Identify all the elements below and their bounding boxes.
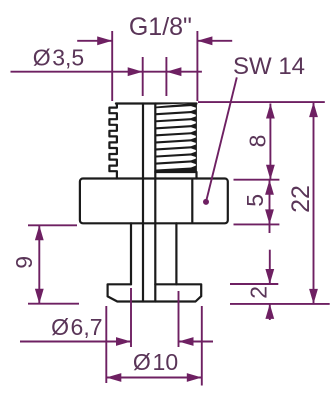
thread teeth (right side) <box>155 104 197 173</box>
dim9 bottom arrow <box>35 289 44 304</box>
dim2 top arrow <box>265 269 274 284</box>
flange top ext line right <box>230 283 278 285</box>
svg-text:2: 2 <box>245 286 271 299</box>
stem right line <box>175 223 177 284</box>
dim5 bottom arrow <box>265 209 274 224</box>
svg-text:G1/8": G1/8" <box>129 13 192 41</box>
dia 3.5 ext line left <box>142 57 144 96</box>
hole right / thread root line <box>154 104 156 302</box>
hex corner line <box>191 180 193 222</box>
dia10 left arrow <box>106 373 121 382</box>
G1/8 dim line right tail <box>197 40 232 42</box>
dia 6.7 dim line right tail <box>179 341 214 343</box>
dia 3.5 dim line <box>11 71 202 73</box>
dim5 top arrow <box>265 180 274 195</box>
dim22 bottom arrow <box>309 289 318 304</box>
dia 10 ext line right <box>201 306 203 386</box>
dim 2 lower line <box>269 304 271 320</box>
svg-text:Ø6,7: Ø6,7 <box>51 314 102 340</box>
hex body <box>80 179 228 224</box>
dia 10 dim line <box>106 377 202 379</box>
dia3.5 right arrow <box>166 67 181 76</box>
dim9 top arrow <box>35 225 44 240</box>
hex bottom ext line right <box>234 223 280 225</box>
G1/8 ext line right <box>196 31 198 101</box>
svg-text:8: 8 <box>245 135 271 148</box>
svg-text:22: 22 <box>287 185 315 213</box>
SW14 leader line <box>206 77 237 201</box>
svg-text:5: 5 <box>242 194 268 207</box>
G1/8 left arrow <box>97 36 112 45</box>
G1/8 ext line left <box>111 31 113 101</box>
arrowheads (purple solid) <box>35 36 318 382</box>
dim8 top arrow <box>266 104 275 119</box>
flange outline <box>108 284 202 301</box>
dim 8 line <box>269 104 271 180</box>
dia6.7 right arrow <box>179 337 194 346</box>
svg-text:Ø3,5: Ø3,5 <box>33 45 84 71</box>
part outline group (black) <box>80 104 228 302</box>
svg-text:Ø10: Ø10 <box>133 349 178 375</box>
top ext line right <box>198 101 325 103</box>
thread top edge <box>116 102 197 104</box>
hex top ext line right <box>234 179 280 181</box>
dia6.7 left arrow <box>116 337 131 346</box>
dia 6.7 dim line left tail <box>20 341 131 343</box>
dia 3.5 ext line right <box>165 57 167 96</box>
SW14 leader dot <box>203 199 209 205</box>
hex bottom ext line left <box>28 224 77 226</box>
dim 9 line <box>38 225 40 303</box>
flange bottom ext line right <box>230 303 330 305</box>
dia3.5 left arrow <box>128 67 143 76</box>
svg-text:9: 9 <box>11 256 37 269</box>
stem left line <box>130 223 132 284</box>
svg-text:SW 14: SW 14 <box>233 53 305 80</box>
G1/8 dim line left tail <box>77 40 112 42</box>
dia 10 ext line left <box>105 306 107 383</box>
dia 6.7 ext line right <box>178 291 180 347</box>
thread bottom line (right side) <box>155 172 196 179</box>
dia10 right arrow <box>187 373 202 382</box>
G1/8 right arrow <box>197 36 212 45</box>
dim 2 upper line <box>269 250 271 284</box>
dim8 bottom arrow <box>266 165 275 180</box>
dia 6.7 ext line left <box>130 288 132 347</box>
dim2 bottom arrow <box>265 304 274 319</box>
hole left line <box>142 104 144 302</box>
dim22 top arrow <box>309 102 318 117</box>
thread left scalloped edge <box>109 104 117 179</box>
flange bottom ext line left <box>28 303 79 305</box>
dim 22 line <box>313 102 315 304</box>
dim 5 line <box>269 180 271 233</box>
